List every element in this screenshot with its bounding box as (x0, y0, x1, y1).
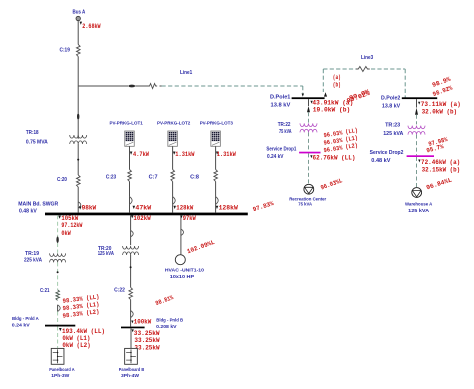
svg-text:128kW: 128kW (219, 204, 238, 211)
svg-text:3Ph-4W: 3Ph-4W (121, 373, 139, 379)
svg-text:102kW: 102kW (133, 215, 150, 222)
svg-text:0kW (L2): 0kW (L2) (62, 342, 90, 349)
svg-text:TR:19: TR:19 (25, 251, 39, 257)
svg-text:72.46kW (a): 72.46kW (a) (421, 159, 460, 166)
svg-text:75 kVA: 75 kVA (279, 129, 292, 135)
svg-text:TR:18: TR:18 (26, 130, 39, 136)
svg-text:Service Drop1: Service Drop1 (266, 146, 296, 152)
svg-text:100kW: 100kW (134, 319, 152, 326)
svg-text:4.7kW: 4.7kW (133, 151, 149, 158)
svg-text:Recreation Center: Recreation Center (289, 196, 326, 202)
svg-text:0.24 kV: 0.24 kV (267, 154, 284, 160)
svg-text:(b): (b) (333, 81, 341, 88)
svg-text:C:22: C:22 (114, 287, 125, 293)
svg-text:2.68kW: 2.68kW (82, 23, 100, 30)
svg-text:98kW: 98kW (82, 205, 97, 212)
svg-text:13.8 kV: 13.8 kV (382, 103, 401, 109)
svg-text:0.208 kV: 0.208 kV (156, 324, 177, 330)
svg-text:47kW: 47kW (135, 204, 151, 211)
svg-text:97.12kW: 97.12kW (61, 222, 82, 229)
svg-text:128kW: 128kW (176, 204, 193, 211)
svg-text:HVAC -UNIT1-10: HVAC -UNIT1-10 (165, 268, 204, 274)
svg-text:125 kVA: 125 kVA (408, 208, 429, 214)
svg-text:225 kVA: 225 kVA (24, 258, 42, 264)
svg-text:C:7: C:7 (149, 174, 158, 180)
svg-text:43.91kW (a): 43.91kW (a) (312, 99, 353, 106)
svg-text:PV-PRKG-LOT1: PV-PRKG-LOT1 (110, 121, 143, 127)
svg-text:125 kVA: 125 kVA (98, 251, 114, 257)
svg-text:C:8: C:8 (190, 174, 199, 180)
svg-text:1.31kW: 1.31kW (175, 151, 194, 158)
svg-text:C:23: C:23 (106, 174, 116, 180)
svg-text:32.15kW (b): 32.15kW (b) (422, 167, 461, 174)
svg-text:Panelboard B: Panelboard B (119, 367, 145, 373)
svg-text:C:20: C:20 (57, 177, 67, 183)
svg-text:0.75 MVA: 0.75 MVA (26, 140, 48, 146)
svg-text:D.Pole1: D.Pole1 (270, 95, 290, 101)
svg-text:TR:22: TR:22 (278, 122, 291, 128)
svg-text:19.0kW (b): 19.0kW (b) (313, 106, 351, 113)
svg-text:0kW: 0kW (61, 230, 71, 237)
svg-text:125 kVA: 125 kVA (383, 131, 403, 137)
svg-text:D.Pole2: D.Pole2 (381, 95, 400, 101)
svg-text:Bldg - Pnld B: Bldg - Pnld B (156, 318, 183, 324)
svg-text:97kW: 97kW (183, 215, 196, 222)
svg-text:32.0kW (b): 32.0kW (b) (422, 109, 458, 116)
svg-text:PV-PRKG-LOT3: PV-PRKG-LOT3 (200, 121, 233, 127)
svg-text:Bldg - Pnld A: Bldg - Pnld A (12, 316, 39, 322)
svg-text:C:21: C:21 (40, 288, 49, 294)
svg-text:Bus A: Bus A (73, 10, 86, 16)
svg-text:33.25kW: 33.25kW (134, 337, 159, 344)
svg-text:13.8 kV: 13.8 kV (271, 102, 291, 108)
svg-text:PV-PRKG-LOT2: PV-PRKG-LOT2 (157, 121, 190, 127)
svg-text:Panelboard A: Panelboard A (49, 367, 75, 373)
svg-text:C:19: C:19 (60, 47, 70, 53)
svg-text:73.11kW (a): 73.11kW (a) (421, 101, 461, 108)
svg-text:62.76kW (LL): 62.76kW (LL) (313, 155, 356, 162)
svg-text:Service Drop2: Service Drop2 (370, 150, 404, 156)
svg-text:1.31kW: 1.31kW (217, 151, 236, 158)
svg-text:Line1: Line1 (180, 70, 192, 76)
svg-text:10x10 HP: 10x10 HP (170, 274, 195, 280)
svg-text:33.25kW: 33.25kW (134, 344, 159, 351)
svg-text:0.48 kV: 0.48 kV (371, 158, 391, 164)
svg-text:0.24 kV: 0.24 kV (12, 322, 31, 328)
svg-text:(a): (a) (333, 74, 341, 81)
svg-text:TR:23: TR:23 (385, 123, 400, 129)
svg-text:1Ph-3W: 1Ph-3W (51, 373, 69, 379)
svg-text:Line3: Line3 (361, 55, 373, 61)
svg-text:0.48 kV: 0.48 kV (19, 208, 37, 214)
svg-text:Warehouse A: Warehouse A (405, 202, 433, 208)
svg-text:33.25kW: 33.25kW (134, 330, 160, 337)
svg-text:0kW (L1): 0kW (L1) (62, 335, 90, 342)
svg-text:MAIN Bd. SWGR: MAIN Bd. SWGR (18, 201, 58, 207)
svg-text:75 kVA: 75 kVA (298, 202, 312, 208)
